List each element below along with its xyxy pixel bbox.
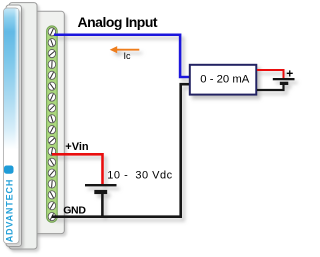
svg-text:Ic: Ic xyxy=(124,51,132,61)
svg-text:Analog Input: Analog Input xyxy=(78,14,158,30)
svg-text:10 - 30 Vdc: 10 - 30 Vdc xyxy=(107,169,172,181)
svg-text:ADVANTECH: ADVANTECH xyxy=(4,179,14,242)
svg-text:0 - 20 mA: 0 - 20 mA xyxy=(200,73,249,85)
svg-text:+Vin: +Vin xyxy=(65,141,89,153)
svg-text:+: + xyxy=(286,66,293,80)
svg-text:GND: GND xyxy=(63,204,86,216)
